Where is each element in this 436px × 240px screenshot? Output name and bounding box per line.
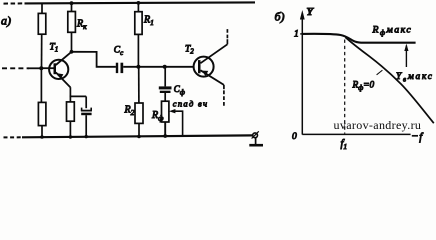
svg-text:Rфмакс: Rфмакс (372, 25, 413, 38)
wire R1 to base line (137, 34, 139, 66)
svg-text:Y: Y (307, 6, 315, 18)
wire top supply rail (25, 2, 256, 3)
svg-text:спад вч: спад вч (173, 99, 209, 109)
wire T2 emitter continuation (dashed down) (223, 85, 225, 106)
node base line / R1 R2 (136, 65, 140, 69)
wire base line to R2 (138, 67, 140, 103)
wire Rf wiper arrow (169, 109, 183, 136)
label spad vch (173, 99, 209, 109)
resistor (bias divider upper, unlabeled) (38, 13, 46, 34)
node top rail / Rk (70, 1, 74, 5)
resistor (T1 emitter, unlabeled) (67, 96, 75, 138)
wire input (dashed) to T1 base node (2, 67, 42, 69)
wire T2 collector continuation (dashed up) (226, 29, 228, 45)
label Cf (174, 84, 185, 97)
wire Cc to T2 base (123, 66, 194, 68)
wire base node down to lower divider resistor (40, 68, 42, 102)
curve response flat + Rf max branch (302, 34, 415, 43)
resistor Rf (162, 101, 169, 122)
wire top supply rail dashed lead-in (4, 2, 25, 4)
wire dashed f1 guide (344, 40, 346, 134)
label Yv max (396, 72, 434, 84)
svg-text:Rф=0: Rф=0 (352, 81, 375, 93)
ground (249, 144, 263, 147)
label Y (307, 6, 315, 18)
wire top rail to Rk (71, 3, 73, 11)
Y axis (300, 10, 305, 135)
wire Rf to bottom rail (163, 122, 167, 138)
resistor (bias divider lower, unlabeled) (38, 102, 46, 125)
resistor R2 (135, 103, 143, 123)
capacitor Cf (159, 86, 172, 93)
wire divider resistor to base node (41, 34, 43, 68)
svg-text:Yвмакс: Yвмакс (396, 72, 434, 84)
wire lower divider resistor to bottom rail (40, 126, 44, 139)
wire top rail to R1 (137, 3, 139, 12)
label T2 (185, 45, 194, 56)
transistor T1 (49, 52, 71, 88)
label 1 (294, 30, 299, 40)
resistor R1 (135, 12, 142, 35)
transistor T2 (194, 44, 228, 85)
svg-text:Т1: Т1 (50, 43, 59, 54)
wire Cf to Rf (164, 93, 166, 101)
svg-text:f1: f1 (341, 139, 348, 152)
label R1 (143, 15, 154, 28)
svg-text:Т2: Т2 (185, 45, 194, 56)
watermark uvarov-andrey.ru (334, 118, 422, 132)
svg-text:1: 1 (294, 30, 299, 40)
label T1 (50, 43, 59, 54)
svg-text:R1: R1 (143, 15, 154, 28)
wire emitter node to bypass cap branch (70, 95, 87, 97)
curve Rf=0 branch (345, 37, 433, 123)
svg-text:Rк: Rк (76, 19, 87, 32)
ground terminal (252, 131, 259, 144)
label Rf max (372, 25, 413, 38)
wire base line down to Cf (164, 67, 166, 87)
wire R2 to bottom rail (137, 123, 141, 138)
label Cc (114, 46, 124, 58)
label Rf=0 (352, 81, 375, 93)
wire leader Rf=0 to curve (377, 70, 383, 75)
svg-text:f: f (419, 132, 424, 143)
svg-text:R2: R2 (124, 105, 135, 118)
label R2 (124, 105, 135, 118)
wire top rail to upper divider resistor (41, 3, 43, 13)
wire T1 base (42, 67, 54, 69)
node R1 top rail (137, 1, 141, 5)
label b) (275, 10, 285, 24)
wire bottom supply rail (22, 135, 253, 137)
wire bottom supply rail dashed lead-in (4, 136, 23, 138)
label a) (1, 14, 11, 28)
capacitor (T1 emitter bypass, unlabeled) (81, 96, 92, 138)
wire collector node to coupling cap (with jog) (72, 52, 116, 67)
label 0 (292, 132, 297, 142)
node base line / Cf branch (163, 65, 167, 69)
node T1 collector junction (70, 50, 74, 54)
label f1 (341, 139, 348, 152)
label Rf (151, 110, 164, 123)
resistor Rk (68, 12, 76, 33)
svg-text:uvarov-andrey.ru: uvarov-andrey.ru (334, 118, 422, 132)
X axis (302, 133, 410, 135)
capacitor Cc (116, 63, 123, 73)
wire T1 emitter down (69, 87, 71, 96)
svg-text:а): а) (1, 14, 11, 28)
node T1 base / divider junction (39, 66, 43, 70)
svg-text:б): б) (275, 10, 285, 24)
svg-text:Сс: Сс (114, 46, 124, 58)
label Rk (76, 19, 87, 32)
label -f (412, 132, 425, 143)
svg-text:Сф: Сф (174, 84, 185, 97)
arrow Yv max level (404, 44, 408, 67)
tick level 1 (300, 33, 302, 35)
wire Rk to collector node (71, 32, 73, 52)
svg-text:0: 0 (292, 132, 297, 142)
